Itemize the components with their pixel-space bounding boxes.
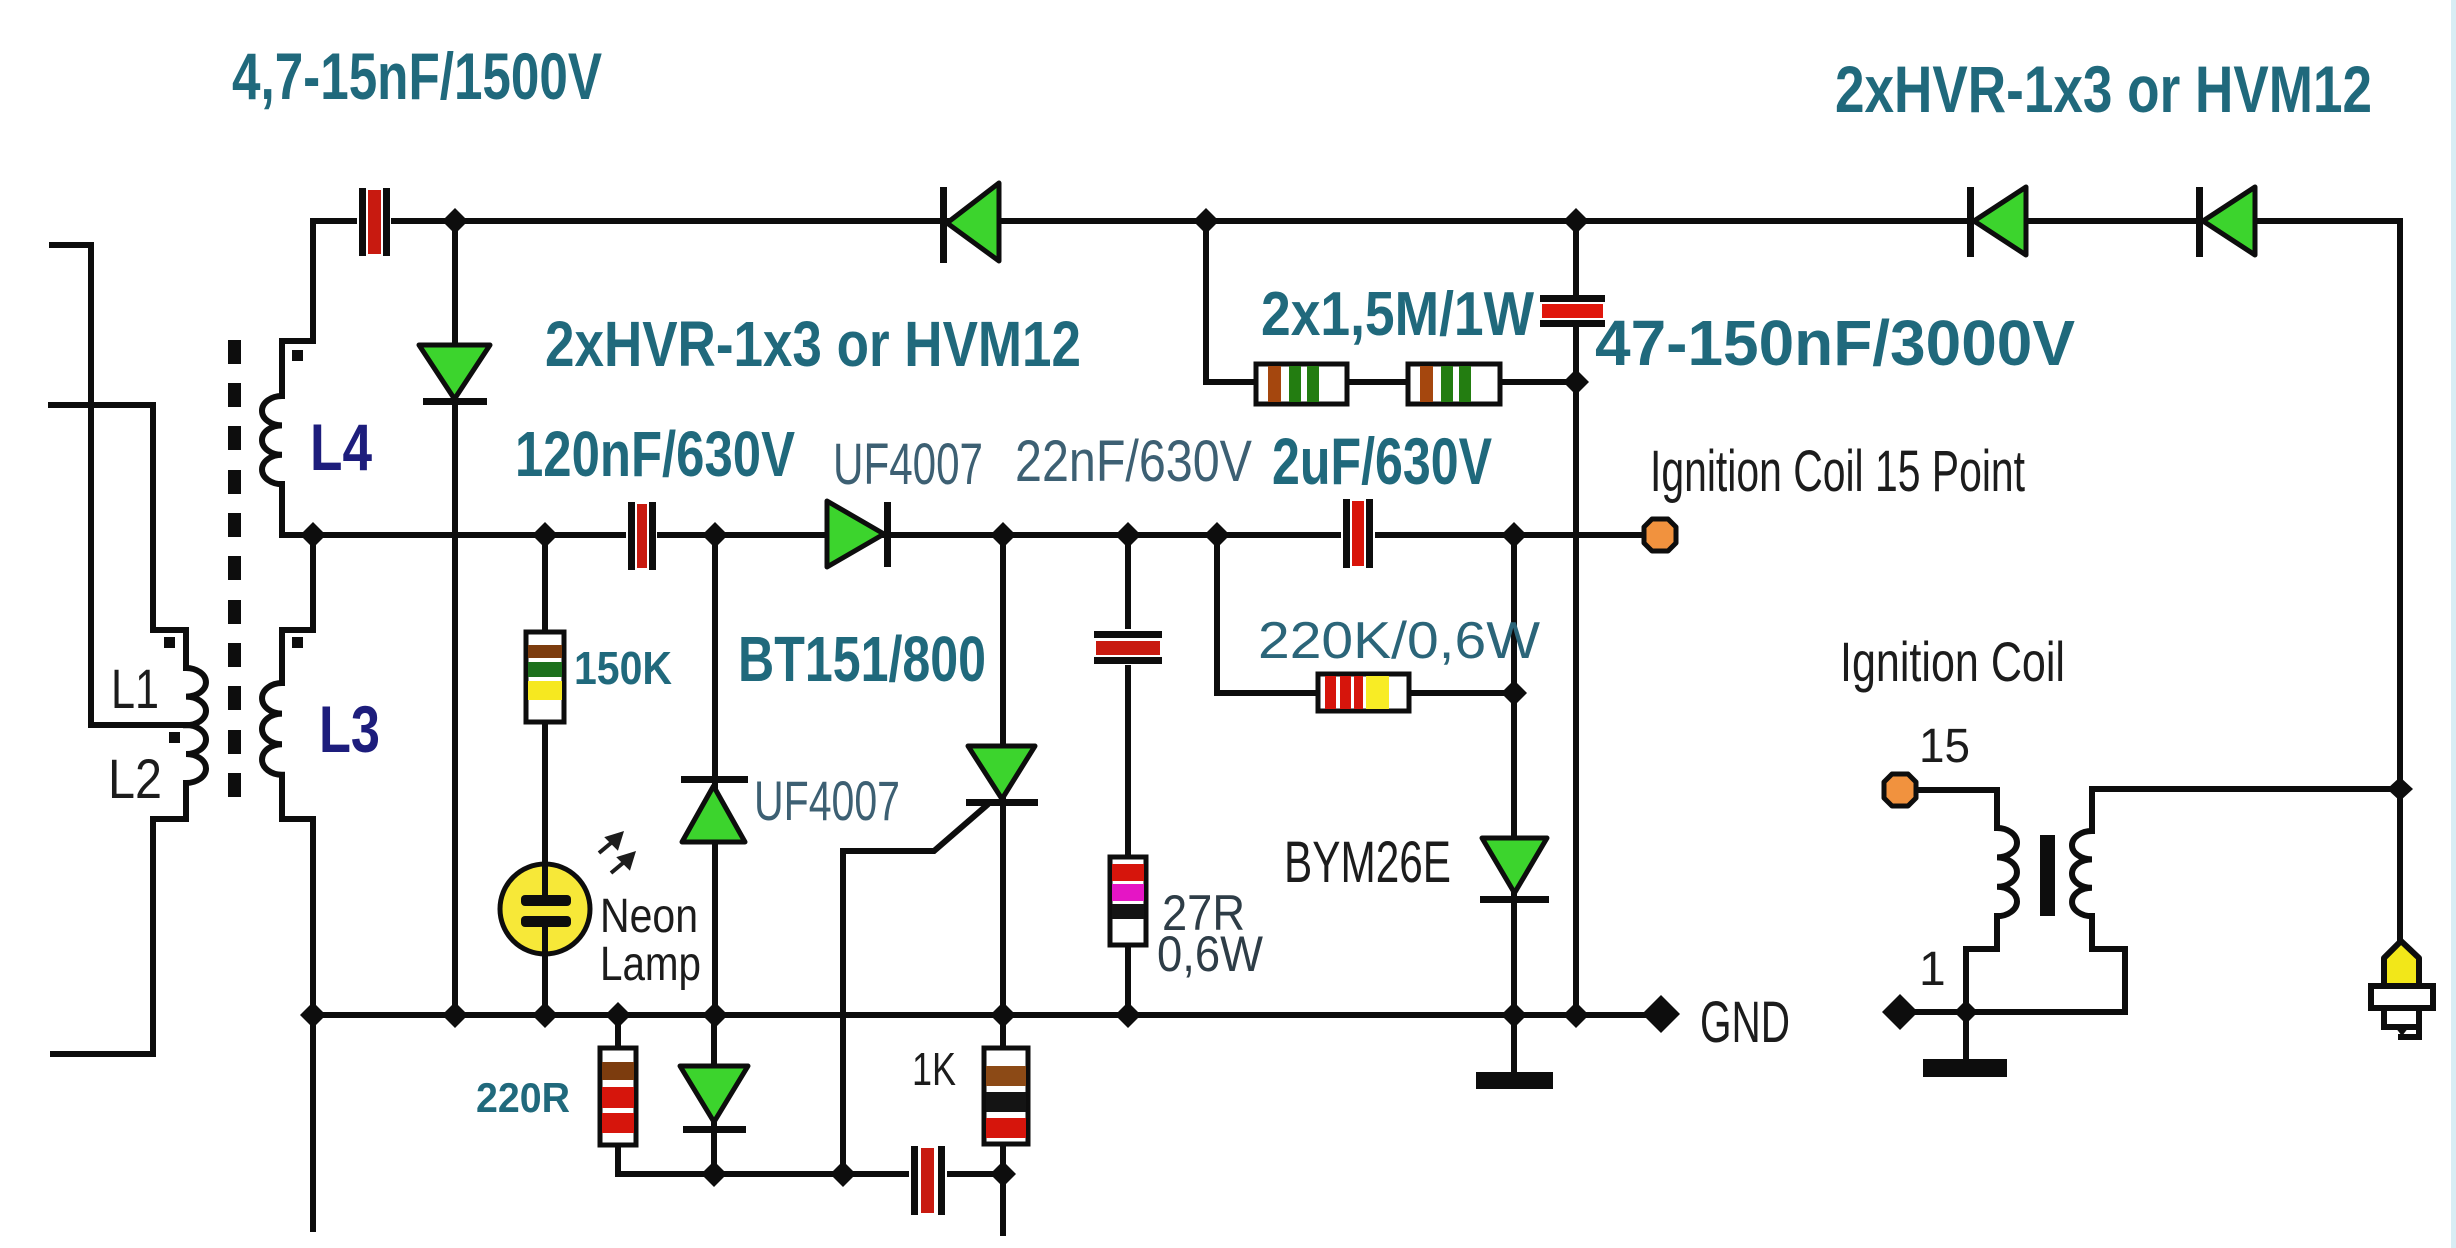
inductor L1 arcs xyxy=(186,668,206,725)
svg-text:BT151/800: BT151/800 xyxy=(738,623,986,695)
svg-text:150K: 150K xyxy=(574,642,672,694)
inductor L3 arcs xyxy=(262,683,282,775)
junction bottom rail / UF4007-D7 xyxy=(702,1002,728,1028)
svg-text:15: 15 xyxy=(1919,720,1970,773)
ground symbol GND terminal (ignition coil pin 1) xyxy=(1882,994,1918,1030)
junction trigger node / D7 xyxy=(701,1161,727,1187)
wire 27R bottom lead xyxy=(1125,945,1131,1015)
junction mid rail / L4-L3 xyxy=(300,522,326,548)
polarity dot L1 xyxy=(164,637,175,648)
wire 22nF branch top lead xyxy=(1125,535,1131,630)
spark plug SP1 xyxy=(2371,941,2433,1037)
wire L3 branch top xyxy=(282,535,313,683)
transformer T1 core (dashed) xyxy=(228,340,241,797)
resistor R3 220R xyxy=(600,1048,636,1145)
junction top rail / D1 xyxy=(442,208,468,234)
wire stub below 1K node xyxy=(1000,1174,1006,1233)
inductor L4 arcs xyxy=(262,396,282,484)
capacitor C1 4.7-15nF/1500V xyxy=(357,186,391,258)
svg-text:Neon: Neon xyxy=(600,890,698,943)
wire trigger node to cap C7 xyxy=(714,1171,913,1177)
resistor R4 27R/0.6W xyxy=(1110,857,1146,945)
transformer T2 ignition coil core bar xyxy=(2040,835,2055,916)
svg-text:Ignition Coil: Ignition Coil xyxy=(1840,630,2065,693)
capacitor C5 2uF/630V xyxy=(1341,497,1375,570)
junction bottom rail / 27R xyxy=(1115,1002,1141,1028)
wire 220R top lead xyxy=(615,1015,621,1048)
svg-text:L4: L4 xyxy=(310,410,372,484)
wire ground stub below BYM26E xyxy=(1511,1015,1517,1072)
wire 150K/neon branch top lead xyxy=(542,535,548,632)
terminal Ignition Coil 15 Point (orange pad) xyxy=(1644,519,1676,551)
wire bottom rail xyxy=(313,1012,1646,1018)
junction mid rail / thyristor xyxy=(990,522,1016,548)
junction bottom rail / neon xyxy=(532,1002,558,1028)
junction bottom rail / 220R xyxy=(605,1002,631,1028)
svg-text:47-150nF/3000V: 47-150nF/3000V xyxy=(1595,307,2075,379)
wire 47-150nF cap branch top xyxy=(1573,221,1579,294)
junction top rail / 47nF xyxy=(1563,208,1589,234)
junction mid rail / 150K xyxy=(532,522,558,548)
inductor ignition primary arcs xyxy=(1997,828,2017,916)
svg-text:220K/0,6W: 220K/0,6W xyxy=(1258,612,1540,670)
svg-text:BYM26E: BYM26E xyxy=(1284,830,1451,895)
scan artifact strip right edge xyxy=(2451,0,2456,1248)
capacitor C2 120nF/630V xyxy=(626,500,657,572)
polarity dot L2 xyxy=(169,732,180,743)
wire ignition primary bottom xyxy=(1966,916,1997,1012)
diode D2 (left-pointing, top rail) xyxy=(940,183,999,263)
resistor R1a 1.5M/1W xyxy=(1256,364,1347,404)
wire ignition secondary top to HV line xyxy=(2092,789,2400,831)
ground symbol GND terminal (main) xyxy=(1642,995,1680,1033)
resistor R2 150K xyxy=(526,632,564,722)
wire 2x1.5M left lead from top rail xyxy=(1206,221,1256,382)
svg-text:UF4007: UF4007 xyxy=(754,769,900,832)
diode D6 (left-pointing, top right outer) xyxy=(2196,187,2255,257)
junction bottom rail / L3 xyxy=(300,1002,326,1028)
svg-text:2xHVR-1x3 or HVM12: 2xHVR-1x3 or HVM12 xyxy=(545,308,1081,380)
wire primary input stub upper (to L1 winding via left vertical) xyxy=(52,245,186,725)
svg-text:L1: L1 xyxy=(111,657,159,720)
svg-text:22nF/630V: 22nF/630V xyxy=(1015,429,1252,494)
svg-text:GND: GND xyxy=(1700,990,1790,1055)
inductor ignition secondary arcs xyxy=(2072,831,2092,916)
svg-text:Ignition Coil 15 Point: Ignition Coil 15 Point xyxy=(1650,439,2025,504)
polarity dot L4 xyxy=(292,350,303,361)
junction mid rail / 220K xyxy=(1204,522,1230,548)
junction bottom rail / thyristor-1K xyxy=(990,1002,1016,1028)
svg-text:L2: L2 xyxy=(108,747,162,810)
capacitor C4 22nF/630V xyxy=(1092,629,1164,665)
junction bottom rail / BYM26E-gnd xyxy=(1501,1002,1527,1028)
wire stub below bottom rail left xyxy=(310,1015,316,1229)
svg-text:2xHVR-1x3 or HVM12: 2xHVR-1x3 or HVM12 xyxy=(1835,52,2372,126)
svg-text:0,6W: 0,6W xyxy=(1157,926,1264,982)
wire L4 bottom to mid rail junction xyxy=(282,484,313,535)
capacitor C6 47-150nF/3000V xyxy=(1540,295,1605,327)
junction top rail / 1.5M xyxy=(1193,208,1219,234)
wire middle rail seg2 xyxy=(656,532,1342,538)
resistor R5 220K/0.6W xyxy=(1318,674,1409,711)
junction ignition coil pin1 xyxy=(1954,1000,1978,1024)
wire ignition coil 15 terminal to primary top xyxy=(1916,790,1997,828)
wire 22nF to 27R xyxy=(1125,664,1131,857)
wire L3 bottom to bottom rail xyxy=(282,775,313,1015)
diode D7 (down, trigger) xyxy=(680,1066,748,1133)
svg-text:Lamp: Lamp xyxy=(600,938,701,991)
wire between 1.5M resistors xyxy=(1347,379,1408,385)
wire L2 bottom out xyxy=(53,783,186,1054)
wire UF4007 up-diode branch xyxy=(712,535,718,1015)
wire top rail left segment to C1 xyxy=(313,218,359,224)
resistor R1b 1.5M/1W xyxy=(1408,364,1500,404)
ground symbol bar below ignition coil xyxy=(1923,1059,2007,1077)
junction 1.5M right / 47nF xyxy=(1563,369,1589,395)
wire thyristor branch anode-cathode xyxy=(1000,535,1006,1015)
wire middle rail seg1 xyxy=(313,532,627,538)
thyristor Q1 BT151/800 xyxy=(966,746,1038,806)
wire ignition coil bottom rail xyxy=(1917,916,2125,1012)
wire primary input stub lower (to L1 top) xyxy=(51,405,186,668)
junction trigger node / 1K xyxy=(990,1161,1016,1187)
diode D5 (left-pointing, top right) xyxy=(1967,187,2026,257)
ground symbol bar below BYM26E xyxy=(1476,1072,1553,1089)
wire 1.5M right lead xyxy=(1500,379,1576,385)
wire 47-150nF cap bottom through to bottom rail xyxy=(1573,327,1579,1015)
svg-text:220R: 220R xyxy=(476,1074,570,1121)
wire BYM26E branch xyxy=(1511,535,1517,1015)
wire 220K left lead xyxy=(1217,535,1318,693)
wire 1K bottom lead xyxy=(1000,1144,1006,1174)
diode D8 BYM26E xyxy=(1480,838,1549,903)
resistor R6 1K xyxy=(984,1048,1028,1144)
wire thyristor gate lead xyxy=(843,806,986,1174)
inductor L2 arcs xyxy=(186,725,206,783)
diode D1 (down, top-left HVR) xyxy=(419,345,490,405)
junction bottom rail / D1 xyxy=(442,1002,468,1028)
svg-text:L3: L3 xyxy=(319,692,380,766)
wire 150K to neon and down to bottom rail xyxy=(542,722,548,1015)
wire top rail from C1 to right corner and down to spark plug xyxy=(390,221,2400,940)
svg-text:2x1,5M/1W: 2x1,5M/1W xyxy=(1261,280,1534,349)
wire 220K right lead xyxy=(1409,690,1514,696)
svg-text:1K: 1K xyxy=(912,1043,956,1095)
svg-text:120nF/630V: 120nF/630V xyxy=(515,418,795,490)
lamp NE1 neon lamp xyxy=(500,864,590,954)
wire diode D1 branch (top rail to bottom rail) xyxy=(452,221,458,1015)
diode D3 UF4007 (up-pointing) xyxy=(681,776,748,842)
wire ground stub below ignition coil xyxy=(1963,1012,1969,1059)
terminal 15 of ignition coil (orange pad) xyxy=(1884,774,1916,806)
junction HV line / secondary xyxy=(2387,777,2413,801)
diode D4 UF4007 (right-pointing, mid rail) xyxy=(827,501,891,567)
svg-text:2uF/630V: 2uF/630V xyxy=(1272,424,1492,498)
svg-text:1: 1 xyxy=(1919,943,1946,996)
junction bottom rail / 47nF line xyxy=(1563,1002,1589,1028)
svg-text:UF4007: UF4007 xyxy=(833,432,983,497)
arrows neon glow indicator xyxy=(599,834,633,873)
svg-text:4,7-15nF/1500V: 4,7-15nF/1500V xyxy=(232,39,602,113)
wire L4 branch from top rail corner xyxy=(282,221,313,396)
junction 220K right on BYM26E line xyxy=(1501,680,1527,706)
junction mid rail / 22nF xyxy=(1115,522,1141,548)
wire cap C7 to 1K node xyxy=(942,1171,1003,1177)
junction mid rail / UF4007 up xyxy=(702,522,728,548)
wire 220R bottom lead to trigger node xyxy=(618,1145,714,1174)
junction trigger node / gate xyxy=(830,1161,856,1187)
polarity dot L3 xyxy=(292,637,303,648)
junction mid rail / BYM26E xyxy=(1501,522,1527,548)
wire D7 down-diode branch below rail xyxy=(711,1015,717,1174)
capacitor C7 (trigger cap) xyxy=(909,1144,947,1217)
wire 1K top lead xyxy=(1000,1015,1006,1048)
wire middle rail seg3 to ignition coil 15 terminal xyxy=(1374,532,1646,538)
